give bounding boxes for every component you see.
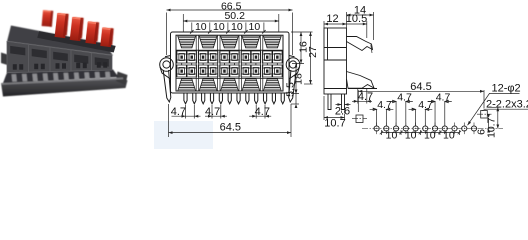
side body bbox=[324, 28, 347, 94]
photo teeth bbox=[12, 72, 111, 82]
dim 10.7 footprint bbox=[488, 107, 500, 128]
side top hook bbox=[347, 37, 373, 51]
dim 50.2 bbox=[183, 14, 278, 32]
dim 18 vertical bbox=[291, 64, 300, 94]
svg-text:4.7: 4.7 bbox=[171, 106, 186, 118]
svg-text:10.5: 10.5 bbox=[346, 13, 367, 25]
dim 64.5 front bbox=[169, 104, 292, 137]
footprint slots bbox=[352, 111, 492, 123]
front right flange blade bbox=[289, 70, 297, 102]
dim 14 bbox=[347, 12, 374, 40]
photo deck (top face) bbox=[7, 26, 113, 56]
svg-text:10: 10 bbox=[231, 21, 243, 33]
front module buttons hatched bbox=[176, 36, 283, 91]
dim 10.7 side bbox=[324, 96, 345, 120]
svg-text:10: 10 bbox=[405, 130, 417, 142]
dim 27 vertical bbox=[304, 32, 313, 84]
svg-text:10.7: 10.7 bbox=[324, 117, 345, 129]
watermark pale blue patch bbox=[154, 121, 213, 149]
dim 4.7 bottom mid bbox=[205, 105, 227, 119]
side pins bbox=[328, 94, 345, 110]
svg-text:4.7: 4.7 bbox=[205, 106, 220, 118]
footprint holes bbox=[374, 123, 477, 135]
front left flange blade bbox=[163, 70, 171, 102]
svg-text:10: 10 bbox=[249, 21, 261, 33]
dim 16 vertical bbox=[291, 32, 313, 64]
front left ear bbox=[160, 56, 174, 103]
dim 64.5 footprint bbox=[358, 90, 484, 112]
photo deck wells bbox=[37, 31, 116, 52]
svg-text:2.6: 2.6 bbox=[335, 106, 350, 118]
front inner face bbox=[176, 35, 283, 91]
footprint centerline bbox=[362, 128, 503, 130]
product photo: speaker terminal block bbox=[1, 10, 128, 97]
side bottom hook bbox=[347, 72, 375, 89]
dim 6 footprint bbox=[487, 114, 490, 133]
svg-text:10: 10 bbox=[443, 130, 455, 142]
svg-text:10.7: 10.7 bbox=[485, 117, 497, 138]
photo flange right pointed tab bbox=[116, 72, 128, 86]
front pins bbox=[184, 94, 284, 104]
svg-text:64.5: 64.5 bbox=[410, 81, 431, 93]
svg-text:12: 12 bbox=[326, 13, 338, 25]
dim 4.7 bottom left bbox=[172, 105, 201, 119]
front body outline bbox=[171, 32, 290, 93]
svg-text:27: 27 bbox=[307, 46, 319, 58]
photo left small tab bbox=[1, 53, 8, 66]
photo front module faces bbox=[7, 42, 112, 73]
dim 2.6 bbox=[336, 103, 351, 113]
svg-text:4.7: 4.7 bbox=[255, 106, 270, 118]
svg-text:12-φ2: 12-φ2 bbox=[492, 83, 521, 95]
photo flange top highlight bbox=[1, 78, 123, 85]
svg-text:2-2.2x3.2: 2-2.2x3.2 bbox=[486, 99, 528, 111]
dim 12 bbox=[324, 21, 347, 28]
footprint 10 dims bbox=[380, 130, 461, 135]
svg-text:10: 10 bbox=[195, 21, 207, 33]
front right ear bbox=[286, 56, 300, 103]
svg-text:64.5: 64.5 bbox=[220, 122, 241, 134]
module dividers bbox=[196, 35, 263, 91]
dim 10 ticks row bbox=[190, 23, 266, 34]
svg-text:10: 10 bbox=[386, 130, 398, 142]
dim 10.5 bbox=[347, 21, 367, 38]
svg-text:10: 10 bbox=[213, 21, 225, 33]
photo red buttons bbox=[42, 10, 113, 42]
dim 5.5 vertical bbox=[291, 90, 299, 109]
dim 66.5 bbox=[167, 9, 293, 55]
dim 4.7 side bbox=[352, 89, 372, 104]
svg-text:4.7: 4.7 bbox=[358, 91, 373, 103]
svg-text:10: 10 bbox=[424, 130, 436, 142]
photo flange slab bbox=[1, 78, 128, 97]
dim 4.7 bottom right bbox=[249, 105, 271, 119]
svg-text:5.5: 5.5 bbox=[285, 82, 297, 97]
photo skirt band bbox=[3, 70, 119, 84]
